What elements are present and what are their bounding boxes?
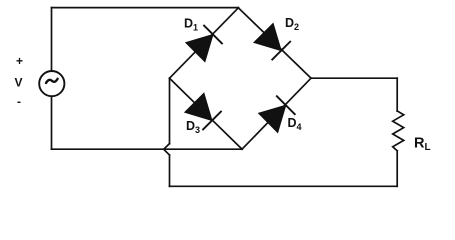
diode D4 cathode bar — [276, 96, 295, 115]
diode D3 triangle — [185, 93, 212, 120]
wire: source top vertical — [51, 8, 53, 71]
wire: resistor bottom lead — [396, 151, 398, 187]
svg-text:D1: D1 — [184, 17, 198, 33]
AC source sine symbol — [46, 79, 58, 83]
wire: bridge arm top node to right node (D2 branch) — [238, 8, 311, 78]
svg-text:D3: D3 — [186, 119, 200, 135]
resistor RL zigzag — [393, 111, 404, 151]
diode D1 cathode bar — [203, 25, 222, 44]
wire: left node vertical upper segment — [169, 78, 171, 143]
AC source V1 circle — [39, 71, 64, 96]
wire: bridge arm left node to top node (D1 branch) — [170, 8, 239, 78]
diode D4 triangle — [259, 105, 286, 132]
svg-text:D2: D2 — [285, 16, 299, 32]
svg-text:V: V — [15, 76, 23, 90]
wire: bridge arm left node to bottom node (D3 branch) — [170, 78, 243, 149]
wire: output right node to resistor top corner — [311, 77, 397, 79]
diode D2 cathode bar — [272, 41, 291, 60]
svg-text:-: - — [17, 95, 21, 109]
svg-text:D4: D4 — [288, 116, 302, 132]
wire: source bottom horizontal to bridge bottom node — [52, 148, 243, 150]
svg-text:+: + — [16, 54, 23, 68]
diode D1 triangle — [186, 35, 213, 62]
wire: bottom rail — [170, 185, 398, 187]
wire: left node vertical lower segment — [169, 155, 171, 186]
wire: resistor top lead — [396, 78, 398, 111]
wire: crossover hop (no connection) — [164, 144, 170, 155]
diode D3 cathode bar — [202, 111, 221, 130]
wire: top horizontal to bridge top node — [52, 7, 239, 9]
wire: bridge arm bottom node to right node (D4 branch) — [242, 78, 311, 149]
wire: source bottom vertical — [51, 97, 53, 149]
diode D2 triangle — [254, 23, 281, 50]
svg-text:RL: RL — [414, 135, 431, 153]
